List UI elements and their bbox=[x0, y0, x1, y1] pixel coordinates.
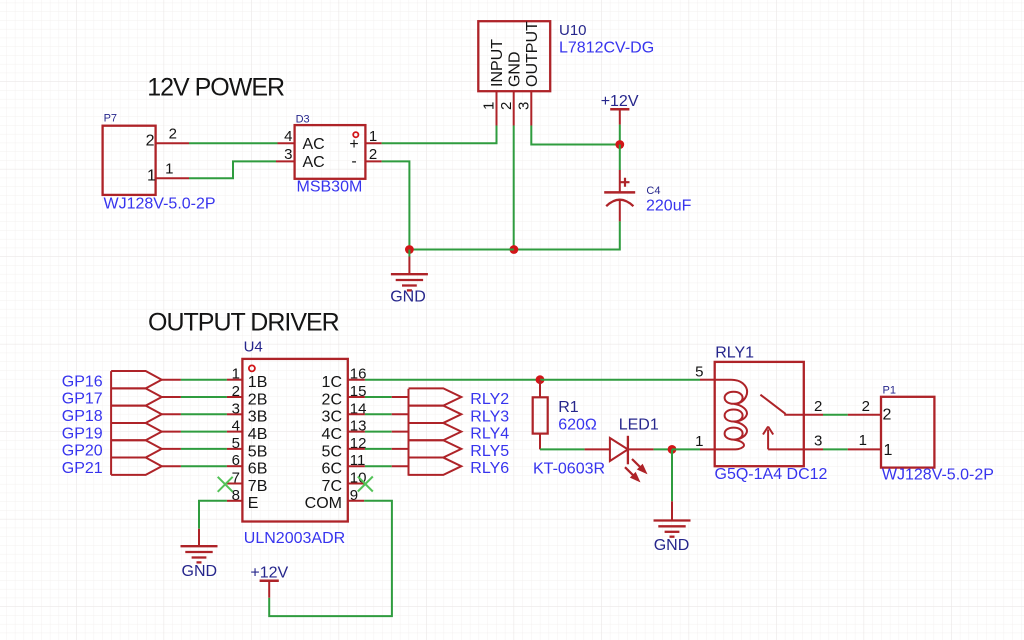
net flag GP18 bbox=[111, 406, 162, 423]
wire RLY1.2 to P1.2 bbox=[823, 414, 848, 416]
GP flag ladder outline bbox=[110, 371, 112, 475]
wire U10.OUTPUT to +12V node bbox=[531, 126, 620, 145]
svg-text:MSB30M: MSB30M bbox=[297, 179, 363, 196]
wire GP20 stub bbox=[162, 448, 181, 450]
svg-text:U10: U10 bbox=[559, 22, 587, 39]
U4 pin 1 stub bbox=[227, 379, 243, 381]
wire junction down to ground bbox=[671, 449, 673, 501]
net flag RLY3 bbox=[409, 406, 462, 423]
svg-text:C4: C4 bbox=[646, 185, 660, 197]
net flag GP21 bbox=[111, 458, 162, 475]
svg-text:1C: 1C bbox=[322, 374, 342, 391]
net flag RLY2 bbox=[409, 388, 462, 405]
junction +12V node bbox=[615, 140, 624, 149]
junction U10 gnd / rail bbox=[510, 245, 519, 254]
wire rail to gnd symbol bbox=[409, 249, 514, 251]
U4 pin 12 stub bbox=[348, 448, 365, 450]
regulator U10 bbox=[478, 21, 550, 91]
svg-text:GND: GND bbox=[506, 51, 523, 87]
junction R1 top bbox=[536, 375, 545, 384]
svg-text:GP19: GP19 bbox=[62, 425, 103, 442]
U4 pin 4 stub bbox=[227, 431, 243, 433]
wire GP21 to U4 pin 6 bbox=[181, 465, 227, 467]
svg-text:D3: D3 bbox=[296, 114, 310, 126]
svg-text:E: E bbox=[248, 495, 259, 512]
U4 pin 2 stub bbox=[227, 396, 243, 398]
U4 pin 3 stub bbox=[227, 413, 243, 415]
wire R1 to LED1 bbox=[540, 448, 585, 450]
svg-text:1: 1 bbox=[481, 102, 498, 110]
U4 pin 15 stub bbox=[348, 396, 365, 398]
no-connect cross pin 10 bbox=[358, 477, 373, 492]
wire GP17 to U4 pin 2 bbox=[181, 396, 227, 398]
svg-text:12V POWER: 12V POWER bbox=[147, 74, 284, 102]
P7 pin 2 stub bbox=[156, 142, 189, 144]
power flag +12V (bottom) bbox=[250, 564, 288, 597]
U4 pin 10 stub (n/c) bbox=[348, 483, 365, 485]
svg-text:1: 1 bbox=[165, 161, 173, 178]
wire GP21 stub bbox=[162, 465, 181, 467]
RLY1 pin 3 stub bbox=[804, 448, 823, 450]
svg-text:OUTPUT: OUTPUT bbox=[524, 21, 541, 87]
wire node down to C4 bbox=[619, 145, 621, 171]
svg-text:R1: R1 bbox=[558, 399, 579, 416]
wire C4 to gnd rail bbox=[514, 221, 620, 249]
svg-text:AC: AC bbox=[303, 136, 325, 153]
svg-text:L7812CV-DG: L7812CV-DG bbox=[559, 40, 654, 57]
svg-text:KT-0603R: KT-0603R bbox=[533, 461, 605, 478]
ground symbol (section 1) bbox=[391, 250, 428, 291]
wire junction to RLY1.5 bbox=[540, 379, 700, 381]
svg-text:220uF: 220uF bbox=[646, 198, 692, 215]
svg-text:2: 2 bbox=[169, 126, 177, 143]
wire RLY4 stub bbox=[392, 431, 409, 433]
svg-text:GP20: GP20 bbox=[62, 443, 103, 460]
svg-text:3: 3 bbox=[516, 102, 533, 110]
RLY1 coil bbox=[715, 380, 747, 450]
RLY1 pin 5 stub bbox=[700, 379, 715, 381]
svg-text:6C: 6C bbox=[322, 461, 342, 478]
U4 pin 13 stub bbox=[348, 431, 365, 433]
net flag GP19 bbox=[111, 423, 162, 440]
net flag RLY4 bbox=[409, 423, 462, 440]
svg-text:OUTPUT DRIVER: OUTPUT DRIVER bbox=[148, 309, 339, 337]
svg-text:P7: P7 bbox=[104, 113, 117, 125]
svg-text:2: 2 bbox=[862, 398, 870, 415]
wire GP19 stub bbox=[162, 431, 181, 433]
wire U4 pin 11 to RLY6 bbox=[365, 465, 392, 467]
svg-text:-: - bbox=[351, 153, 356, 170]
svg-text:COM: COM bbox=[305, 495, 342, 512]
wire LED1 to junction bbox=[654, 448, 672, 450]
junction LED/RLY1/GND bbox=[668, 445, 677, 454]
svg-text:GP17: GP17 bbox=[62, 391, 103, 408]
svg-text:7C: 7C bbox=[322, 478, 342, 495]
bridge rectifier D3 bbox=[295, 114, 366, 179]
wire D3.1 to U10.INPUT bbox=[382, 126, 497, 144]
wire U4.COM to +12V flag bbox=[269, 501, 392, 616]
wire RLY1.3 to P1.1 bbox=[823, 448, 848, 450]
svg-text:GND: GND bbox=[390, 289, 426, 306]
svg-text:RLY4: RLY4 bbox=[470, 426, 509, 443]
D3 pin-1 indicator circle bbox=[353, 132, 358, 137]
U4 pin 5 stub bbox=[227, 448, 243, 450]
svg-text:5C: 5C bbox=[322, 443, 342, 460]
net flag RLY6 bbox=[409, 458, 462, 475]
U10 pin 3 stub bbox=[530, 91, 532, 125]
wire RLY5 stub bbox=[392, 448, 409, 450]
svg-text:RLY5: RLY5 bbox=[470, 443, 509, 460]
P1 pin 2 stub bbox=[848, 414, 881, 416]
U4 pin 16 stub bbox=[348, 379, 365, 381]
resistor R1 bbox=[533, 380, 548, 450]
net flag GP16 bbox=[111, 371, 162, 388]
wire P7.1 to D3.3 bbox=[189, 161, 276, 178]
wire U4 pin 14 to RLY3 bbox=[365, 413, 392, 415]
wire U4 pin 13 to RLY4 bbox=[365, 431, 392, 433]
wire U4 pin 12 to RLY5 bbox=[365, 448, 392, 450]
svg-text:RLY2: RLY2 bbox=[470, 391, 509, 408]
RLY1 pin 1 stub bbox=[700, 448, 715, 450]
svg-text:G5Q-1A4 DC12: G5Q-1A4 DC12 bbox=[715, 466, 828, 483]
svg-text:GND: GND bbox=[182, 563, 218, 580]
wire GP20 to U4 pin 5 bbox=[181, 448, 227, 450]
svg-text:3C: 3C bbox=[322, 409, 342, 426]
RLY1 actuator arrow bbox=[763, 427, 773, 450]
svg-text:2C: 2C bbox=[322, 391, 342, 408]
svg-text:LED1: LED1 bbox=[619, 417, 659, 434]
svg-text:6B: 6B bbox=[248, 461, 268, 478]
svg-text:WJ128V-5.0-2P: WJ128V-5.0-2P bbox=[104, 196, 216, 213]
RLY1 switch contact bbox=[760, 395, 803, 415]
svg-text:4: 4 bbox=[284, 128, 292, 145]
svg-text:1B: 1B bbox=[248, 374, 268, 391]
svg-text:1: 1 bbox=[695, 433, 703, 450]
svg-text:2: 2 bbox=[146, 133, 155, 150]
svg-text:5: 5 bbox=[695, 363, 703, 380]
net flag RLY5 bbox=[409, 440, 462, 457]
svg-text:620Ω: 620Ω bbox=[558, 417, 597, 434]
wire RLY3 stub bbox=[392, 413, 409, 415]
connector P7 bbox=[103, 113, 156, 195]
svg-text:RLY3: RLY3 bbox=[470, 408, 509, 425]
svg-text:RLY6: RLY6 bbox=[470, 460, 509, 477]
capacitor C4 bbox=[604, 170, 635, 221]
wire GP19 to U4 pin 4 bbox=[181, 431, 227, 433]
wire GP17 stub bbox=[162, 396, 181, 398]
wire U4.E to ground bbox=[199, 501, 227, 529]
D3 pin 3 stub bbox=[276, 160, 295, 162]
svg-text:5B: 5B bbox=[248, 443, 268, 460]
P1 pin 1 stub bbox=[848, 448, 881, 450]
wire U4.1C to relay net bbox=[365, 379, 540, 381]
junction gnd rail bbox=[405, 245, 414, 254]
svg-text:GND: GND bbox=[654, 537, 690, 554]
svg-text:+: + bbox=[349, 136, 358, 153]
wire GP18 stub bbox=[162, 413, 181, 415]
P7 pin 1 stub bbox=[156, 177, 189, 179]
svg-text:1: 1 bbox=[147, 168, 156, 185]
wire U10.GND down to gnd rail bbox=[513, 126, 515, 250]
connector P1 bbox=[881, 385, 934, 468]
svg-text:1: 1 bbox=[859, 432, 867, 449]
svg-text:+12V: +12V bbox=[250, 564, 288, 581]
svg-text:4B: 4B bbox=[248, 426, 268, 443]
wire GP16 stub bbox=[162, 379, 181, 381]
net flag GP17 bbox=[111, 388, 162, 405]
ground symbol (U4) bbox=[181, 529, 218, 563]
svg-text:GP21: GP21 bbox=[62, 460, 103, 477]
svg-text:4C: 4C bbox=[322, 426, 342, 443]
ground symbol (LED) bbox=[654, 501, 691, 536]
U4 pin 7 stub (n/c) bbox=[227, 483, 243, 485]
D3 pin 2 stub bbox=[365, 160, 381, 162]
svg-text:7B: 7B bbox=[248, 478, 268, 495]
svg-text:1: 1 bbox=[884, 442, 893, 459]
wire +12V flag to node bbox=[619, 125, 621, 145]
power flag +12V (top) bbox=[601, 93, 639, 125]
svg-text:AC: AC bbox=[303, 154, 325, 171]
U4 pin 8 stub bbox=[227, 500, 243, 502]
svg-text:2: 2 bbox=[814, 398, 822, 415]
wire RLY2 stub bbox=[392, 396, 409, 398]
svg-text:GP16: GP16 bbox=[62, 373, 103, 390]
U10 pin 2 stub bbox=[513, 91, 515, 125]
wire P7.2 to D3.4 bbox=[189, 142, 278, 144]
diode LED1 bbox=[585, 436, 654, 482]
svg-text:2B: 2B bbox=[248, 391, 268, 408]
net flag GP20 bbox=[111, 440, 162, 457]
RLY1 pin3 internal line bbox=[768, 448, 804, 450]
svg-text:1: 1 bbox=[369, 128, 377, 145]
svg-text:INPUT: INPUT bbox=[489, 39, 506, 87]
U4 pin-1 indicator circle bbox=[249, 365, 255, 371]
U4 pin 9 stub bbox=[348, 500, 364, 502]
wire RLY6 stub bbox=[392, 465, 409, 467]
IC U4 ULN2003ADR bbox=[242, 359, 347, 522]
svg-text:ULN2003ADR: ULN2003ADR bbox=[244, 530, 345, 547]
svg-text:+12V: +12V bbox=[601, 93, 639, 110]
relay RLY1 bbox=[715, 362, 804, 466]
svg-text:2: 2 bbox=[883, 406, 892, 423]
svg-text:3B: 3B bbox=[248, 409, 268, 426]
wire U4 pin 15 to RLY2 bbox=[365, 396, 392, 398]
svg-text:2: 2 bbox=[369, 146, 377, 163]
svg-text:3: 3 bbox=[284, 146, 292, 163]
RLY1 pin 2 stub bbox=[804, 414, 823, 416]
svg-text:WJ128V-5.0-2P: WJ128V-5.0-2P bbox=[882, 467, 994, 484]
wire junction to RLY1.1 bbox=[672, 448, 700, 450]
U4 pin 6 stub bbox=[227, 465, 243, 467]
svg-text:P1: P1 bbox=[883, 385, 896, 397]
svg-text:U4: U4 bbox=[244, 339, 263, 356]
svg-text:3: 3 bbox=[814, 432, 822, 449]
D3 pin 1 stub bbox=[365, 142, 381, 144]
svg-text:2: 2 bbox=[498, 102, 515, 110]
no-connect cross pin 7 bbox=[218, 477, 233, 492]
svg-text:RLY1: RLY1 bbox=[715, 345, 754, 362]
wire GP18 to U4 pin 3 bbox=[181, 413, 227, 415]
wire GP16 to U4 pin 1 bbox=[181, 379, 227, 381]
U4 pin 14 stub bbox=[348, 413, 365, 415]
RLY flag ladder outline bbox=[408, 389, 410, 476]
wire D3.2 down to gnd rail bbox=[382, 161, 410, 249]
svg-text:GP18: GP18 bbox=[62, 408, 103, 425]
D3 pin 4 stub bbox=[278, 142, 295, 144]
U4 pin 11 stub bbox=[348, 465, 365, 467]
U10 pin 1 stub bbox=[496, 91, 498, 125]
